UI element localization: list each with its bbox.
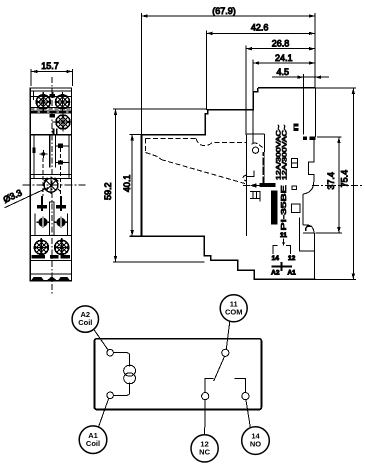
svg-text:NO: NO [250,440,261,449]
svg-text:14: 14 [272,255,280,262]
svg-text:A1: A1 [287,270,296,277]
svg-text:26.8: 26.8 [272,39,290,49]
svg-text:Coil: Coil [78,318,92,327]
svg-text:(67.9): (67.9) [212,6,236,16]
svg-text:37.4: 37.4 [326,172,336,190]
svg-text:A2: A2 [271,270,280,277]
svg-text:40.1: 40.1 [122,175,132,193]
svg-text:11: 11 [280,232,287,239]
svg-text:42.6: 42.6 [251,23,269,33]
svg-text:COM: COM [225,307,243,316]
svg-text:4.5: 4.5 [276,67,289,77]
svg-text:12: 12 [288,255,296,262]
svg-text:12A/300VAC~: 12A/300VAC~ [281,124,288,180]
svg-text:Coil: Coil [86,439,100,448]
svg-text:59.2: 59.2 [103,182,113,200]
svg-text:PI-35BE: PI-35BE [280,185,288,231]
svg-text:75.4: 75.4 [340,170,350,188]
svg-text:15.7: 15.7 [41,61,59,71]
svg-text:NC: NC [199,448,210,457]
svg-text:24.1: 24.1 [275,53,293,63]
